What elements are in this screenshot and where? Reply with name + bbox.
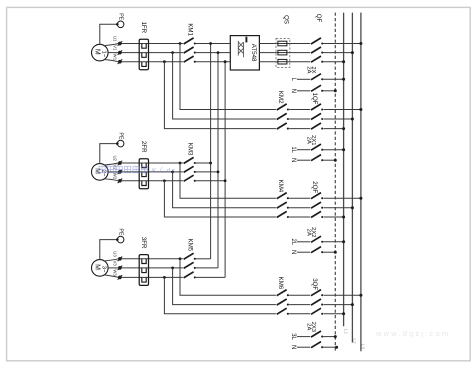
svg-text:1QF: 1QF — [311, 93, 318, 105]
fuse group QS (dashed enclosure) — [276, 38, 290, 67]
PE terminal of M3 — [116, 238, 119, 241]
svg-text:2~: 2~ — [101, 170, 107, 177]
svg-text:KM4: KM4 — [277, 180, 284, 193]
node feeder 1 top junction — [209, 42, 212, 45]
svg-text:L2: L2 — [351, 338, 357, 344]
svg-text:N: N — [290, 158, 296, 162]
svg-text:1~: 1~ — [101, 50, 107, 57]
wire KM1 row 1 to AT548 — [196, 43, 231, 45]
node M1 phase 1 tap junction — [179, 42, 182, 45]
wire QF row 3 to bus — [322, 61, 343, 63]
wire 3QF row 2 to bus — [324, 304, 353, 306]
contactor KM5 contacts — [184, 253, 194, 259]
node L bus junction — [342, 78, 345, 81]
node 3L bus junction — [334, 335, 337, 338]
node N bus junction — [334, 159, 337, 162]
node QF row 3 bus junction — [342, 60, 345, 63]
wire 3QF row 3 to bus — [324, 313, 344, 315]
svg-text:2L: 2L — [290, 238, 296, 245]
wire L to fuse-switch — [297, 78, 310, 80]
node feeder 3 top junction — [224, 60, 227, 63]
wire M2 phase 3 down to KM4 row — [164, 181, 276, 217]
wire KM6 to 3QF row 3 — [289, 313, 310, 315]
svg-text:U1: U1 — [112, 36, 117, 42]
wire 2QF row 2 to bus — [324, 207, 353, 209]
node QF row 2 bus junction — [351, 51, 354, 54]
wire W2 from terminal through 2FR to KM3 contact — [122, 180, 183, 182]
wire KM4 to 2QF row 2 — [289, 207, 310, 209]
wire KM1 row 2 to AT548 — [196, 52, 231, 54]
wire 3L to bus — [322, 336, 335, 338]
wire AT548 output 2 to fuse QS — [259, 52, 278, 54]
node 1QF row 2 bus junction — [351, 118, 354, 121]
motor M3 phase leads — [104, 259, 119, 261]
wire KM1 row 3 to AT548 — [196, 61, 231, 63]
svg-text:3QF: 3QF — [311, 278, 318, 290]
terminal V1 of M1 — [118, 51, 122, 55]
node N bus junction — [334, 89, 337, 92]
thermal overload relay 2FR — [139, 159, 148, 189]
svg-text:N: N — [290, 89, 296, 93]
terminal W3 of M3 — [118, 276, 122, 280]
wire KM6 to 3QF row 2 — [289, 304, 310, 306]
svg-text:U3: U3 — [112, 251, 117, 257]
wire N to neutral bus — [322, 346, 336, 348]
svg-text:W2: W2 — [112, 173, 117, 180]
node feeder 3 KM3 junction — [224, 179, 227, 182]
wire QS element 3 to QF — [287, 61, 310, 63]
wire M2 phase 1 down to KM4 row — [180, 163, 276, 198]
wire N to fuse-switch — [297, 346, 310, 348]
fuse-switch L contact — [311, 74, 321, 80]
svg-text:PE: PE — [118, 133, 124, 140]
node M3 phase 3 tap junction — [163, 276, 166, 279]
wire 1L to bus — [322, 149, 343, 151]
wire M2 phase 2 down to KM4 row — [173, 172, 276, 208]
wire soft-starter feeder 1 (vertical) — [210, 44, 212, 259]
node M2 phase 1 tap junction — [179, 162, 182, 165]
svg-text:www.dgzj.com: www.dgzj.com — [375, 329, 450, 338]
wire M2 PE lead — [100, 144, 117, 164]
wire AT548 output 3 to fuse QS — [259, 61, 278, 63]
node N bus junction — [335, 346, 338, 349]
fuse QS element 1 — [278, 41, 287, 46]
fuse QS element 2 — [278, 50, 287, 55]
node feeder 2 top junction — [217, 51, 220, 54]
wire KM3 row 3 to feeder — [196, 180, 225, 182]
node 1QF row 3 bus junction — [342, 127, 345, 130]
svg-text:KM5: KM5 — [186, 239, 193, 252]
wire KM6 to 3QF row 1 — [289, 294, 310, 296]
svg-text:1FR: 1FR — [140, 22, 147, 34]
node QF row 1 bus junction — [359, 42, 362, 45]
fuse-switch N contact — [311, 342, 321, 348]
wire KM3 row 2 to feeder — [196, 171, 218, 173]
svg-text:M: M — [93, 49, 100, 55]
wire KM2 to 1QF row 3 — [289, 128, 310, 130]
motor M2 phase leads — [104, 163, 119, 165]
node M3 phase 2 tap junction — [171, 267, 174, 270]
node 1L bus junction — [342, 148, 345, 151]
bus L2 — [351, 13, 353, 343]
svg-text:KM1: KM1 — [186, 23, 193, 36]
wire N to fuse-switch — [297, 251, 310, 253]
node 3QF row 2 bus junction — [351, 303, 354, 306]
svg-text:3L: 3L — [290, 333, 296, 340]
terminal U1 of M1 — [118, 42, 122, 46]
svg-text:PE: PE — [118, 13, 124, 20]
svg-text:PE: PE — [118, 229, 124, 236]
fuse-switch 1L contact — [311, 144, 321, 150]
node 2QF row 1 bus junction — [359, 197, 362, 200]
node M3 phase 1 tap junction — [179, 257, 182, 260]
wire soft-starter feeder 3 (vertical) — [224, 62, 226, 278]
terminal W2 of M2 — [118, 179, 122, 183]
wire 2QF row 3 to bus — [324, 216, 344, 218]
wire V2 from terminal through 2FR to KM3 contact — [122, 171, 183, 173]
fuse-switch 2L contact — [311, 236, 321, 242]
wire L to bus — [322, 78, 343, 80]
svg-text:2A: 2A — [305, 229, 311, 236]
wire 3L to fuse-switch — [297, 336, 310, 338]
wire 2L to fuse-switch — [297, 241, 310, 243]
svg-text:3~: 3~ — [101, 266, 107, 273]
motor M1 circle — [92, 44, 109, 61]
svg-text:1L: 1L — [290, 146, 296, 153]
PE terminal of M1 — [116, 23, 119, 26]
svg-text:2FR: 2FR — [140, 141, 147, 153]
wire AT548 output 1 to fuse QS — [259, 43, 278, 45]
wire KM5 row 3 to feeder bottom corner — [196, 276, 225, 278]
node M2 phase 2 tap junction — [171, 171, 174, 174]
wire KM2 to 1QF row 1 — [289, 109, 310, 111]
terminal U2 of M2 — [118, 161, 122, 165]
wire U3 from terminal through 3FR to KM5 contact — [122, 258, 183, 260]
node 1QF row 1 bus junction — [359, 108, 362, 111]
soft starter U1 AT548 — [230, 36, 259, 70]
breaker QF contacts — [311, 38, 321, 44]
terminal V2 of M2 — [118, 170, 122, 174]
wire QS element 2 to QF — [287, 52, 310, 54]
wire KM3 row 1 to feeder — [196, 162, 211, 164]
bus L1 — [343, 13, 345, 327]
wire 3QF row 1 to bus — [324, 294, 361, 296]
terminal V3 of M3 — [118, 266, 122, 270]
svg-text:QS: QS — [282, 15, 289, 24]
node feeder 1 KM3 junction — [209, 162, 212, 165]
motor M1 phase leads — [104, 44, 119, 46]
wire QF row 1 to bus — [322, 43, 361, 45]
svg-text:U2: U2 — [112, 155, 117, 161]
fuse QS element 3 — [278, 59, 287, 64]
wire M1 phase 2 down to KM2 row — [173, 53, 276, 119]
wire M1 phase 3 down to KM2 row — [164, 62, 276, 129]
fuse-switch N contact — [311, 155, 321, 161]
terminal U3 of M3 — [118, 257, 122, 261]
wire M3 phase 1 down to KM6 row — [180, 259, 276, 295]
svg-text:2QF: 2QF — [311, 181, 318, 193]
motor M3 circle — [92, 260, 109, 277]
wire KM4 to 2QF row 1 — [289, 197, 310, 199]
wire U1 from terminal through 1FR to KM1 contact — [122, 43, 183, 45]
breaker 1QF contacts — [311, 104, 321, 110]
wire 1QF row 2 to bus — [324, 118, 353, 120]
wire soft-starter feeder 2 (vertical) — [217, 53, 219, 268]
node 2QF row 2 bus junction — [351, 206, 354, 209]
wire M3 PE lead — [100, 240, 117, 260]
contactor KM2 contacts — [277, 104, 287, 110]
svg-text:L1: L1 — [342, 329, 348, 335]
wire N to neutral bus — [322, 159, 335, 161]
wire N to fuse-switch — [297, 159, 310, 161]
wire QS element 1 to QF — [287, 43, 310, 45]
thermal overload relay 3FR — [139, 255, 148, 286]
svg-text:2A: 2A — [305, 66, 311, 73]
svg-text:M: M — [93, 264, 100, 270]
bus L3 — [360, 13, 362, 352]
wire N to neutral bus — [322, 90, 335, 92]
wire KM2 to 1QF row 2 — [289, 118, 310, 120]
wire W3 from terminal through 3FR to KM5 contact — [122, 276, 183, 278]
svg-text:V3: V3 — [112, 260, 117, 266]
wire V1 from terminal through 1FR to KM1 contact — [122, 52, 183, 54]
wire QF row 2 to bus — [322, 52, 352, 54]
wire U2 from terminal through 2FR to KM3 contact — [122, 162, 183, 164]
svg-text:W3: W3 — [112, 269, 117, 276]
bus N (dashed neutral line) — [334, 13, 336, 352]
node N bus junction — [334, 251, 337, 254]
breaker 3QF contacts — [311, 290, 321, 296]
fuse-switch N contact — [311, 85, 321, 91]
node feeder 2 KM3 junction — [217, 171, 220, 174]
motor M2 circle — [92, 164, 109, 181]
svg-text:L3: L3 — [360, 344, 366, 350]
terminal W1 of M1 — [118, 60, 122, 64]
svg-text:KM3: KM3 — [186, 143, 193, 156]
svg-text:V1: V1 — [112, 45, 117, 51]
node 2L bus junction — [342, 240, 345, 243]
wire KM5 row 2 to feeder bottom corner — [196, 267, 218, 269]
thermal overload relay 1FR — [139, 39, 148, 69]
wire 1QF row 3 to bus — [324, 128, 344, 130]
wire M3 phase 2 down to KM6 row — [173, 268, 276, 305]
wire KM4 to 2QF row 3 — [289, 216, 310, 218]
svg-text:KM2: KM2 — [277, 91, 284, 104]
wire N to neutral bus — [322, 251, 335, 253]
wire M3 phase 3 down to KM6 row — [164, 277, 276, 313]
contactor KM6 contacts — [277, 290, 287, 296]
svg-text:N: N — [290, 345, 296, 349]
svg-text:AT548: AT548 — [250, 44, 257, 62]
breaker 2QF contacts — [311, 193, 321, 199]
PE terminal of M2 — [116, 142, 119, 145]
node 3QF row 1 bus junction — [359, 294, 362, 297]
node M1 phase 3 tap junction — [163, 60, 166, 63]
node 2QF row 3 bus junction — [342, 216, 345, 219]
node M2 phase 3 tap junction — [163, 179, 166, 182]
svg-text:K〈 .d.c: K〈 .d.c — [152, 166, 176, 174]
wire N to fuse-switch — [297, 90, 310, 92]
svg-text:N: N — [290, 250, 296, 254]
wire 2QF row 1 to bus — [324, 197, 361, 199]
svg-text:W1: W1 — [112, 54, 117, 61]
node M1 phase 2 tap junction — [171, 51, 174, 54]
fuse-switch N contact — [311, 247, 321, 253]
svg-text:3FR: 3FR — [140, 237, 147, 249]
svg-text:KM6: KM6 — [277, 277, 284, 290]
node 3QF row 3 bus junction — [342, 312, 345, 315]
wire W1 from terminal through 1FR to KM1 contact — [122, 61, 183, 63]
wire M1 phase 1 down to KM2 row — [180, 44, 276, 110]
wire 1QF row 1 to bus — [324, 109, 361, 111]
wire V3 from terminal through 3FR to KM5 contact — [122, 267, 183, 269]
contactor KM4 contacts — [277, 193, 287, 199]
wire 1L to fuse-switch — [297, 149, 310, 151]
thyristor symbol inside AT548 — [245, 37, 247, 43]
svg-text:QF: QF — [315, 14, 322, 23]
wire 2L to bus — [322, 241, 343, 243]
wire M1 PE lead — [100, 24, 117, 44]
svg-text:2A: 2A — [305, 323, 311, 330]
decorative watermark — [99, 166, 148, 172]
svg-text:2A: 2A — [305, 137, 311, 144]
contactor KM3 contacts — [184, 157, 194, 163]
wire KM5 row 1 to feeder bottom corner — [196, 258, 211, 260]
fuse-switch 3L contact — [311, 331, 321, 337]
contactor KM1 contacts — [184, 38, 194, 44]
